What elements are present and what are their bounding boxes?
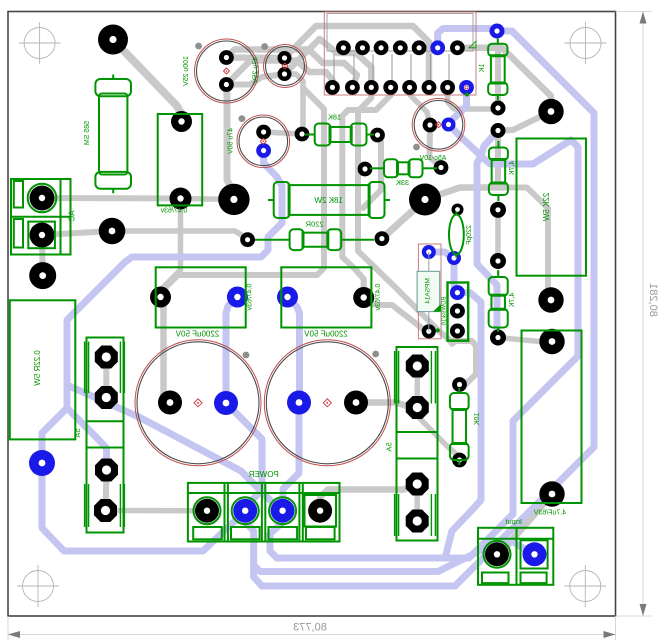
POWER terminal block [188,483,340,542]
svg-text:2200uF 50V: 2200uF 50V [304,330,348,339]
svg-text:33K: 33K [396,178,409,187]
resistor 22K 5W [517,139,587,276]
pad P20 [491,101,506,116]
pad 18K2W right [409,184,441,216]
label filmcap2 label [375,284,382,311]
pad cap2 top [278,51,292,65]
pad 33K right [434,160,449,175]
pad cap3 bot blue [256,143,271,158]
label AC label [68,210,77,221]
label C2 label [253,57,260,83]
label BD label [442,296,448,326]
pad BD pin2 [450,304,465,319]
pad Input 2 blue [523,542,547,566]
svg-text:47u 50V: 47u 50V [228,128,235,154]
svg-text:4,7K: 4,7K [509,161,516,176]
svg-text:4,7K: 4,7K [509,293,516,308]
pad filmcap2 right [353,287,374,308]
wire branch down left to filmcap1 left pad [161,88,325,297]
pad bigcap1 left [158,391,182,415]
pad IC b4 [383,80,398,95]
wire fuse2 to resistor pad P66 [417,408,459,461]
pad P19 blue [490,24,505,39]
mounting hole 2 [565,22,607,64]
wire blue BD pin1 right riser [445,293,481,558]
pad cap2 bot [278,67,292,81]
svg-text:18K: 18K [328,113,341,122]
label C4 label [419,155,446,162]
label 2200uF label 1 [175,330,219,339]
wire cap1 top to cap2 top [226,54,284,61]
wire fuse1 pads link bottom [106,470,107,511]
pad IC b5 [402,80,417,95]
svg-text:2200uF 50V: 2200uF 50V [175,330,219,339]
wire C-box bottom to pad P4 [181,196,234,202]
pad POWER 4 [308,499,332,523]
svg-text:0.22R 5W: 0.22R 5W [33,350,42,386]
fuse1 pad1 octagon [95,346,118,369]
pad P26 [538,287,563,312]
fuse2 pad3 octagon [406,473,429,496]
pad 220pF bot blue [447,251,461,265]
label POWER label [248,470,278,479]
capacitor C5 2200u [135,340,261,466]
pad P24 [490,330,506,346]
wire blue branch to P46 [42,408,67,463]
fuse1 pad4 octagon [94,499,117,522]
wire P31 right to the 22K feed [425,188,502,200]
svg-text:Input: Input [504,517,522,526]
AC terminal block [11,179,71,255]
wire cap2 top up to IC pad b6 (staircase D1) [285,26,430,87]
resistor 0.22R 5W [10,300,76,439]
film cap box 0.47/63v left [156,267,246,327]
resistor 33K [370,167,384,169]
wire P21 down through 4.7K to P26 via 22K rect [498,137,551,300]
pad cap3 top [256,125,271,140]
pad filmcap1 right blue [227,287,248,308]
mounting hole 1 [19,22,61,64]
wire fuse1 bottom to POWER pad1 [106,508,208,514]
wire 18K2W big pad to 220R right pad [382,200,425,239]
pad P23 [490,253,506,269]
pad BD pin1 blue [450,285,465,300]
wire staircase D2 cap2 bottom to IC b3 [285,39,372,87]
label 220pF label [466,225,473,245]
svg-text:MPSA14: MPSA14 [425,278,432,304]
pad IC b3 [364,80,379,95]
wire blue central to pad2 [245,490,262,511]
pad POWER 1 [195,499,219,523]
pad IC b7 [440,80,455,95]
label fuse label [84,121,91,145]
label 10K label [474,413,481,426]
label 4.7uF label [534,510,567,517]
wire blue MPSA base to 220pF [429,252,454,260]
resistor 1K [497,39,499,44]
fuse2 pad4 octagon [406,510,429,533]
capacitor C1 100u [195,39,259,103]
wire bigcap1 left pad up to film cap pad [161,297,171,403]
pad 18K right [370,128,385,143]
wire P24 to P27 [498,338,552,342]
fuse2 pad2 octagon [406,396,429,419]
pad IC a3 [374,40,389,55]
wire P42 to MPSA emitter [364,298,429,332]
pad IC a7 [450,40,465,55]
wire blue 220pF to BD pin1 [454,260,457,293]
pad AC 1 [30,186,55,211]
pad IC b2 [345,80,360,95]
wire blue bigcap1 down central vertical [226,403,262,490]
pad MPSA emitter [422,324,436,338]
gray dots [195,43,202,50]
svg-text:BDW93/16: BDW93/16 [442,296,448,326]
label 220R label [305,220,324,229]
pad P46 blue [29,450,55,476]
pad C-box top [171,111,192,132]
wire blue cap4 junction [449,125,482,157]
capacitor 220pF ellipse [449,215,464,255]
label 33K label [396,178,409,187]
wire cap3 top to P15 [264,132,302,134]
pad IC a2 [355,40,370,55]
pad 220R left [240,232,255,247]
wire IC b4 down to filmcap2 right pad [342,87,390,297]
pad IC b6 [422,80,437,95]
MPSA14 inner box [417,271,440,311]
wire top P1 to C-box [113,40,182,122]
pad AC 2 [30,223,55,248]
svg-text:10K: 10K [474,413,481,426]
svg-text:5A: 5A [73,428,82,437]
wire blue pad3 down to H2 [270,511,283,558]
pad P28 [539,481,564,506]
wire P28 to input pad [497,494,552,554]
svg-text:100u 25V: 100u 25V [183,56,190,86]
wire AC2 to P5 [42,231,112,235]
wire cap1 bottom to cap2 bottom [226,74,284,85]
IC jumper wires [334,54,449,81]
pad P25 [538,99,563,124]
IC/relay red outline [324,12,476,95]
svg-text:80,773: 80,773 [293,622,327,634]
svg-text:0.47/63v: 0.47/63v [247,284,254,311]
wire blue right trunk outer [262,31,594,586]
wire fuse1 pads link top [103,357,109,398]
pad P1 [98,25,128,55]
resistor 18K [305,134,315,136]
wire IC b5 down to cap4 left [410,87,430,125]
wire blue power pad2 left loop [42,463,245,551]
wire staircase D4 cap1 bottom to IC b1 [226,61,332,88]
resistor 220R [255,239,290,241]
svg-text:A5c-10V: A5c-10V [419,155,446,162]
pad IC a4 [393,40,408,55]
wire vertical under 1K to P20 [495,48,501,108]
svg-text:22K 5W: 22K 5W [542,193,551,222]
svg-text:4.7uF/63V: 4.7uF/63V [534,510,567,517]
svg-text:47u 25V: 47u 25V [253,57,260,83]
pad MPSA base blue [422,245,436,259]
wire IC a7 to P25 [457,48,551,112]
mounting hole 4 [564,565,606,607]
pad filmcap1 left [150,287,171,308]
svg-text:AC: AC [68,210,77,221]
film cap box 0.47uF [158,114,203,205]
wire blue filmcap2 left pad down to bigcap2 [288,297,300,403]
pad P22 [490,202,506,218]
pad cap4 left [423,118,438,133]
dimension text 80,281 [647,283,658,317]
wire AC2 down to P6 [39,235,46,276]
pad cap1 top [219,50,234,65]
wire blue IC a6 to P19 [438,29,497,48]
label 1K label [479,64,486,73]
pad IC a1 [336,40,351,55]
wire blue P21 to junction [481,131,498,157]
mounting hole 3 [17,565,59,607]
transistor BD box [448,283,469,341]
label 5A label 1 [73,428,82,437]
svg-text:220R: 220R [305,220,324,229]
resistor 4.7K b [497,270,499,277]
fuse1 pad3 octagon [95,459,118,482]
cap 4.7uF/63V box [522,331,582,504]
capacitor C3 47u [237,115,290,168]
fuse F1 top-left silk [95,79,131,96]
pad cap1 bot [219,77,234,92]
fuse holder FH2 [397,347,438,541]
label C1 label [183,56,190,86]
wire blue pad2 down to H3 and H4 [245,511,534,572]
wire C-box bottom down to film cap pad [161,199,181,298]
capacitor C4 47u [412,99,465,152]
pad P15 [295,127,310,142]
wire bigcap2 right pad to fuse2 [356,403,417,408]
svg-text:5A: 5A [385,442,394,451]
wire P22 to P23 [495,210,501,261]
pad BD pin3 [450,324,465,339]
pad R10K bot [452,453,467,468]
pad bigcap2 left blue [287,391,311,415]
pad IC b1 [325,80,340,95]
label 0.22R label [33,350,42,386]
svg-text:220pF: 220pF [466,225,473,245]
wire cap4 left pad down to 33K right pad [430,125,442,168]
label 22K label [542,193,551,222]
pad 220pF top [452,204,464,216]
fuse holder FH1 [87,338,124,533]
svg-text:18K 2W: 18K 2W [314,196,343,205]
label 4.7K a label [509,161,516,176]
wire blue H4 left hook [254,565,262,586]
wire fuse2 pads link top [415,366,421,408]
fuse2 pad1 octagon [406,355,429,378]
capacitor C6 2200u [264,340,390,466]
pad P4 [218,184,249,215]
wire blue inner trunk to POWER pad3 [277,140,578,558]
svg-text:0.47/63v: 0.47/63v [160,208,187,215]
wire IC b3 long run to resistor pad P65 [358,87,476,384]
film cap box 0.47/63v right [281,267,371,327]
wire cap2 bottom to P15 [285,74,304,134]
svg-text:POWER: POWER [248,470,278,479]
resistor 10K [458,388,460,393]
pad POWER 2 blue [233,499,257,523]
label 2200uF label 2 [304,330,348,339]
svg-text:80,281: 80,281 [647,283,658,317]
pad cap4 right blue [442,118,456,132]
pad C-box bottom [170,188,192,210]
wire staircase D3 cap1 top to IC b2 [226,50,357,88]
wire AC1 to C-box bottom pad [42,195,181,202]
wire blue junction down to P24 [477,156,498,338]
wire P5 to 220R left pad [112,231,248,240]
label 18K 2W label [314,196,343,205]
svg-text:585 SM: 585 SM [84,121,91,145]
pad P5 [99,218,126,245]
pad 33K left [358,162,373,177]
pad Input 1 [485,542,509,566]
wire 18K right pad into chain [363,135,381,208]
pad IC a5 [412,40,427,55]
svg-text:0.47/63v: 0.47/63v [375,284,382,311]
wire blue shallow diagonal from left loop to pad3 [67,385,283,511]
wire POWER pad4 to fuse2 bottom [320,484,417,511]
IC inner gray rect [327,14,473,52]
label 18K label [328,113,341,122]
dimension text 80,773 [293,622,327,634]
label 5A label 2 [385,442,394,451]
pad P6 [29,262,56,289]
wire blue filmcap1 right pad down to bigcap1 [226,297,237,403]
pad 220R right [375,231,390,246]
wire fuse2 pads link bottom [414,484,420,521]
wire P25 diag to P21 [498,112,551,131]
wire IC b7 down to P20 [448,87,498,109]
resistor 4.7K a [497,141,499,148]
pad P21 [491,123,506,138]
wire blue bigcap2 to power pad3 [283,403,299,511]
label filmcap1 label [247,284,254,311]
pad filmcap2 left blue [277,287,298,308]
fuse1 pad2 octagon [95,386,118,409]
pad bigcap2 right [344,391,368,415]
pad POWER 3 blue [271,499,295,523]
label C3 label [228,128,235,154]
pad IC b8 [459,80,474,95]
wire blue cap3 long loop to fuse1 [67,151,282,471]
pad IC a6 [430,40,445,55]
label Input label [504,517,522,526]
MPSA14 red outline [418,244,441,339]
svg-text:1K: 1K [479,64,486,73]
label film cap label [160,208,187,215]
label 4.7K b label [509,293,516,308]
wire BD pin3 stub [450,331,457,344]
Input terminal block [478,528,553,585]
wire blue IC b8 to cap4 [449,87,467,124]
wire cap1 bottom down to P4 [226,85,234,200]
pad bigcap1 right blue [214,391,238,415]
resistor 18K 2W [268,199,274,201]
capacitor C2 47u [264,45,307,88]
pad P27 [539,329,564,354]
label MPSA14 label [425,278,432,304]
pad R10K top [452,377,467,392]
